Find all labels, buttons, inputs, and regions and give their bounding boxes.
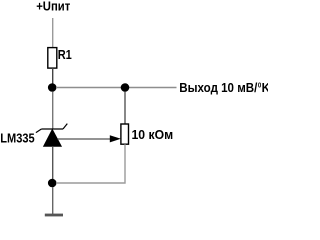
node C junction dot <box>48 179 57 188</box>
svg-text:R1: R1 <box>58 47 72 62</box>
power net label +Uпит <box>36 0 70 14</box>
ground <box>45 214 63 217</box>
output label Выход 10 мВ/0K <box>179 80 270 95</box>
adjust wire with arrow to potentiometer wiper <box>58 135 121 142</box>
node B junction dot <box>121 83 130 92</box>
wire R1 to node A <box>52 68 54 84</box>
wire node C to ground <box>52 187 54 214</box>
label 10 кОм <box>132 126 174 142</box>
LM335 zener diode <box>36 124 67 147</box>
potentiometer body <box>121 124 129 144</box>
svg-text:10 кОм: 10 кОм <box>132 126 174 142</box>
svg-text:+Uпит: +Uпит <box>36 0 70 14</box>
svg-text:Выход 10 мВ/0K: Выход 10 мВ/0K <box>179 80 268 95</box>
svg-text:LM335: LM335 <box>0 131 35 146</box>
wire supply to R1 <box>52 18 54 48</box>
wire node C to potentiometer bottom <box>56 144 125 183</box>
label LM335 <box>0 131 35 146</box>
wire node B to potentiometer top <box>124 92 126 125</box>
node A junction dot <box>48 83 57 92</box>
resistor R1 <box>48 48 57 69</box>
wire node A to LM335 cathode <box>52 92 54 130</box>
wire LM335 anode to node C <box>52 146 54 179</box>
label R1 <box>58 47 72 62</box>
wire output horizontal <box>56 87 177 89</box>
